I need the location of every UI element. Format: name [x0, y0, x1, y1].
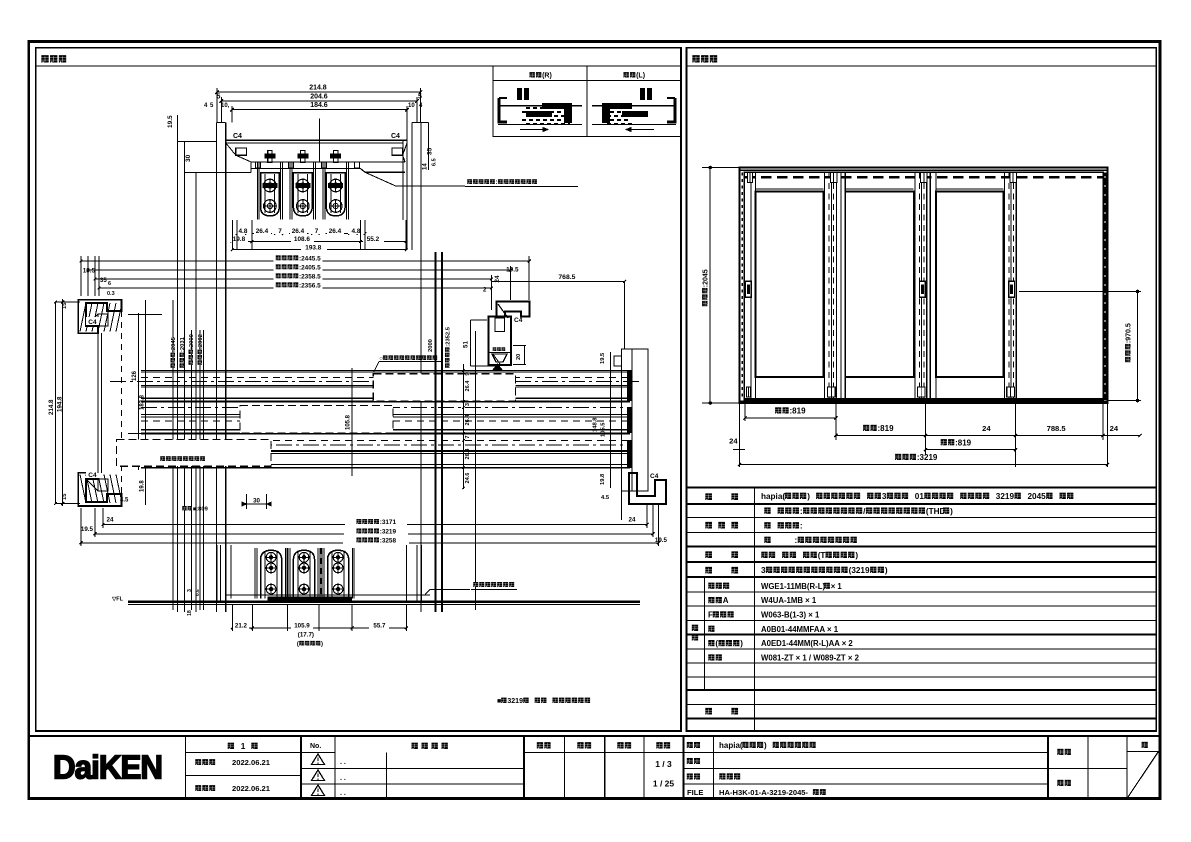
svg-text:194.8: 194.8 [57, 396, 64, 412]
head jamb chamfer feet [236, 148, 247, 155]
svg-text:А: А [723, 596, 729, 605]
svg-text:0.3: 0.3 [107, 291, 115, 297]
floor detail dashed center [320, 548, 322, 598]
hanger housing [326, 173, 345, 216]
roller bolt lower [264, 200, 277, 213]
svg-text:6: 6 [108, 281, 111, 287]
svg-text:24: 24 [1110, 424, 1119, 433]
svg-text:2022.06.21: 2022.06.21 [232, 784, 271, 793]
vertical grid lines left cluster [172, 300, 174, 610]
left frame weatherstrip dashes [741, 172, 743, 400]
hanger bolt [301, 151, 305, 163]
front-view panel title line [687, 65, 1157, 67]
svg-text:108.6: 108.6 [294, 236, 310, 243]
door stop dims 19.5/148.8/105.5 [610, 352, 612, 488]
mid dim 768.5 [491, 280, 624, 282]
label 正面図 [692, 55, 699, 62]
center thick verticals [434, 252, 436, 612]
head detail right wall [411, 123, 413, 251]
svg-text:26.4: 26.4 [465, 380, 471, 392]
floor detail left wall [216, 545, 218, 602]
svg-text:(17.7): (17.7) [298, 632, 314, 639]
floor line [128, 601, 640, 603]
svg-text:1: 1 [241, 742, 246, 751]
768.5 right extension vertical [624, 281, 626, 349]
head dim 30 left [184, 141, 186, 612]
svg-text:3: 3 [465, 403, 471, 406]
revision history header [412, 743, 418, 749]
head bottom dims row2 [232, 241, 406, 243]
head bottom dims row3 [232, 249, 406, 251]
svg-text::819: :819 [955, 438, 972, 447]
head track base [251, 161, 405, 163]
svg-text:No.: No. [310, 743, 321, 750]
svg-text:7: 7 [278, 228, 282, 235]
svg-text:24: 24 [729, 437, 738, 446]
right top jamb column [489, 317, 512, 366]
svg-text::2445.5: :2445.5 [299, 255, 321, 262]
roller bolt lower [329, 200, 342, 213]
head detail left wall [215, 123, 217, 613]
svg-text:W4UA-1MB × 1: W4UA-1MB × 1 [761, 596, 817, 605]
svg-text:26.4: 26.4 [256, 228, 269, 235]
head bottom dims row1 [237, 233, 365, 235]
svg-text:): ) [855, 551, 858, 560]
svg-text:3: 3 [761, 566, 766, 575]
svg-text::2352.5: :2352.5 [446, 326, 452, 346]
mid dim extension verticals right [528, 256, 530, 300]
svg-text:19.5: 19.5 [83, 268, 96, 275]
svg-text:3219: 3219 [996, 492, 1015, 501]
hanger bolt [334, 151, 338, 163]
svg-text:C4: C4 [88, 319, 97, 326]
door stop flange caps [627, 370, 633, 401]
svg-text::: : [800, 522, 803, 531]
pocket diagram door blocks [526, 111, 552, 117]
svg-text::: : [795, 536, 798, 545]
door handles [745, 281, 751, 297]
svg-text::2045: :2045 [703, 269, 710, 287]
svg-text:): ) [321, 642, 323, 648]
svg-text::3258: :3258 [380, 537, 397, 544]
svg-text:hapia(: hapia( [719, 741, 743, 750]
svg-text:19.5: 19.5 [167, 115, 174, 128]
svg-text:21.2: 21.2 [235, 622, 248, 629]
hanger side plates [289, 162, 291, 220]
dim 20 bracket [513, 345, 526, 347]
head detail dim 184.6 [232, 109, 407, 111]
edition cell [186, 751, 336, 753]
svg-text::2002: :2002 [198, 334, 204, 349]
elevation bottom dim row3 819 [926, 449, 1016, 451]
elevation inner frame [744, 172, 1103, 400]
svg-text:. .: . . [340, 759, 346, 766]
svg-text:A0B01-44MMFAA × 1: A0B01-44MMFAA × 1 [761, 625, 839, 634]
top hanger marks [748, 172, 753, 182]
roller bolt upper [264, 179, 277, 192]
svg-text:26.4: 26.4 [292, 228, 305, 235]
floor roller housing [293, 550, 314, 598]
svg-text:4.5: 4.5 [120, 498, 129, 504]
svg-text:9: 9 [465, 372, 471, 375]
svg-text:▽FL: ▽FL [111, 597, 124, 603]
svg-text:10: 10 [408, 103, 415, 109]
svg-text:■: ■ [497, 698, 501, 705]
svg-text:126: 126 [132, 370, 138, 381]
svg-text:14: 14 [423, 163, 429, 170]
right frame dark jamb [1104, 172, 1107, 400]
spec table sub labels [708, 583, 714, 589]
pocket diagram wall mark [647, 88, 652, 100]
svg-text:15: 15 [62, 493, 68, 500]
svg-text:(3219: (3219 [849, 566, 870, 575]
svg-text:. .: . . [340, 775, 346, 782]
elevation bottom dim row2 819 / 24 / 788.5 / 24 [836, 434, 1140, 436]
svg-text:A0ED1-44MM(R-L)AA × 2: A0ED1-44MM(R-L)AA × 2 [761, 639, 853, 648]
floor hanger side plates [256, 548, 258, 599]
svg-text:1 / 3: 1 / 3 [655, 759, 672, 769]
svg-text:(L): (L) [636, 73, 645, 80]
hanger housing [261, 173, 280, 216]
mid dims overall heights [81, 260, 529, 262]
pocket diagram jamb L [667, 98, 675, 122]
mohair seal [493, 347, 497, 351]
svg-text:20: 20 [516, 354, 522, 360]
floor guide blocks [747, 387, 751, 397]
svg-text::819: :819 [878, 424, 895, 433]
elevation outer frame [740, 168, 1108, 404]
svg-text:2022.06.21: 2022.06.21 [232, 758, 271, 767]
svg-text:19.8: 19.8 [233, 236, 246, 243]
divider 3 (door3/open bay) [1003, 172, 1005, 398]
svg-text:105.8: 105.8 [346, 414, 352, 430]
svg-text:24: 24 [982, 424, 991, 433]
svg-text:768.5: 768.5 [558, 274, 575, 281]
mid bottom dim 3258 [81, 542, 659, 544]
bottom-right hook profile [629, 473, 666, 504]
svg-text::970.5: :970.5 [1126, 323, 1133, 343]
hanger side plates [322, 162, 324, 220]
mid bottom dim 3171 [103, 523, 647, 525]
mid bottom dim 3219 [95, 533, 653, 535]
svg-text:■:809: ■:809 [193, 507, 209, 513]
door 2 panel inner rect [845, 192, 913, 378]
track down tabs [256, 162, 261, 168]
svg-text:788.5: 788.5 [1047, 424, 1067, 433]
svg-text:3: 3 [187, 589, 193, 592]
svg-text:19.5: 19.5 [506, 267, 519, 274]
svg-text:): ) [950, 507, 953, 516]
right row dims 26.4 stack [463, 364, 465, 489]
rotated labels center verticals [428, 339, 434, 352]
mohair triangle [493, 364, 503, 371]
svg-text:105.5: 105.5 [601, 422, 607, 437]
left jamb face lines [97, 333, 99, 473]
spec table vertical lines [754, 488, 756, 732]
svg-text:30: 30 [185, 154, 192, 162]
svg-text:0.5: 0.5 [195, 589, 201, 596]
floor hanger side plates [323, 548, 325, 599]
head dim 35 right [427, 147, 434, 155]
svg-text:(R): (R) [542, 73, 552, 80]
floor small labels left [187, 589, 193, 592]
hanger bolt [268, 151, 272, 163]
mid dim extension verticals left [80, 256, 82, 296]
floor roller housing [261, 550, 282, 598]
label C4 bottom-left [86, 470, 99, 478]
elevation bottom dim overall 3219 [740, 463, 1108, 465]
svg-text::2045: :2045 [171, 336, 177, 352]
svg-text:105.9: 105.9 [294, 622, 310, 629]
svg-text::2000: :2000 [189, 334, 195, 349]
svg-text::: : [800, 507, 803, 516]
svg-text:55.7: 55.7 [373, 622, 386, 629]
label C4 top-left [86, 317, 99, 325]
svg-text:35: 35 [427, 147, 434, 155]
svg-text:): ) [764, 741, 767, 750]
svg-text:204.6: 204.6 [310, 93, 328, 100]
svg-text::2358.5: :2358.5 [299, 273, 321, 280]
left extension ticks [128, 314, 162, 316]
pocket diagram jamb L [499, 98, 507, 122]
svg-text::3171: :3171 [380, 519, 397, 526]
svg-text:24: 24 [494, 275, 501, 283]
svg-text:): ) [885, 566, 888, 575]
spec table row labels [705, 493, 712, 500]
svg-text:19.8: 19.8 [600, 473, 606, 485]
pocket diagram wall line [498, 105, 582, 107]
head detail dim 204.6 [221, 100, 417, 102]
roller bolt upper [297, 179, 310, 192]
floor roller bolts [299, 552, 309, 562]
page cell [1127, 750, 1160, 752]
svg-text::: : [496, 179, 498, 186]
svg-text:26.4: 26.4 [465, 414, 471, 426]
pocket diagram wall mark [517, 88, 522, 100]
svg-text:19.8: 19.8 [140, 480, 146, 492]
svg-text:10,: 10, [221, 103, 230, 109]
floor rail bar [268, 597, 353, 602]
door 1 stile lines [750, 172, 752, 398]
mid bottom extension verticals [102, 508, 104, 528]
approval headers [537, 742, 543, 748]
elevation bottom dim row1 819 [745, 417, 836, 419]
section-view panel title line [36, 65, 681, 67]
svg-text:(: ( [715, 639, 718, 648]
floor roller housing [328, 550, 349, 598]
svg-text:FILE: FILE [687, 788, 703, 797]
svg-text:19.5: 19.5 [600, 352, 606, 364]
label 809 [182, 506, 186, 510]
divider 1 (door1/door2) [824, 172, 826, 398]
label 吊車レール [467, 179, 472, 184]
door section row B lines [141, 407, 630, 409]
svg-text::2356.5: :2356.5 [299, 282, 321, 289]
svg-text:(T: (T [818, 551, 826, 560]
svg-text:1 / 25: 1 / 25 [653, 779, 675, 789]
label 引手掘込キャップ [160, 456, 165, 461]
masking rect row C pull-cap box [117, 440, 272, 467]
svg-text:C4: C4 [233, 133, 242, 140]
pocket diagram hatch [526, 107, 570, 109]
svg-text::2031: :2031 [180, 336, 186, 352]
head detail dim extension lines [216, 88, 218, 123]
floor bottom dim line [232, 627, 406, 629]
head detail dim 214.8 [217, 91, 420, 93]
left dim line 214.8/194.8 [62, 299, 64, 506]
pocket diagram wall line [592, 105, 676, 107]
svg-text:24: 24 [629, 517, 636, 524]
svg-text:26.4: 26.4 [329, 228, 342, 235]
floor bottom dim extensions [231, 604, 233, 631]
svg-text:4.8: 4.8 [239, 228, 248, 235]
svg-text::2405.5: :2405.5 [299, 264, 321, 271]
svg-text:C4: C4 [391, 133, 400, 140]
svg-text:W081-ZT × 1 / W089-ZT × 2: W081-ZT × 1 / W089-ZT × 2 [761, 654, 860, 663]
svg-text::3219: :3219 [380, 528, 397, 535]
spec table horizontal lines [687, 487, 1157, 489]
floor detail right walls [405, 545, 407, 602]
svg-text:hapia(: hapia( [761, 492, 785, 501]
svg-text:55.2: 55.2 [367, 236, 380, 243]
svg-text:3219: 3219 [507, 698, 523, 705]
svg-text:C4: C4 [88, 472, 97, 479]
masking rect row B label box [240, 406, 393, 433]
svg-text:24: 24 [107, 517, 114, 524]
door section row C lines [141, 439, 630, 441]
svg-text:6.5: 6.5 [432, 158, 438, 166]
elevation track dashed line [745, 176, 1103, 178]
pocket diagram hatch [604, 107, 632, 109]
floor roller bolts [266, 552, 276, 562]
svg-text:214.8: 214.8 [309, 85, 327, 92]
svg-text:DaiKEN: DaiKEN [53, 749, 162, 786]
door 3 stile lines [929, 172, 931, 398]
dim 51 right-top [470, 320, 472, 366]
svg-text:C4: C4 [650, 473, 659, 480]
rotated labels on left verticals [171, 336, 177, 367]
name rows [684, 751, 1049, 753]
svg-text:30: 30 [253, 498, 260, 505]
svg-text::3219: :3219 [917, 453, 938, 462]
dim 30 bottom-center [246, 494, 248, 509]
svg-text:HA-H3K-01-A-3219-2045-: HA-H3K-01-A-3219-2045- [719, 788, 809, 797]
svg-text:2000: 2000 [428, 339, 434, 352]
elevation floor line [740, 400, 1108, 402]
left jamb bottom profile [78, 473, 121, 506]
svg-text:W063-B(1-3) × 1: W063-B(1-3) × 1 [761, 611, 820, 620]
dim 105.8 vertical [351, 368, 353, 476]
svg-text:(: ( [297, 642, 299, 648]
right top jamb profile head bar [497, 302, 530, 317]
svg-text:WGE1-11MB(R-L): WGE1-11MB(R-L) [761, 582, 826, 591]
label 断面図 [41, 55, 48, 62]
door 3 panel inner rect [936, 192, 1004, 378]
door section row A lines [141, 370, 630, 372]
svg-text:× 1: × 1 [831, 582, 843, 591]
track leader line [365, 172, 396, 186]
divider 2 (door2/door3) [914, 172, 916, 398]
svg-text:7: 7 [465, 435, 471, 438]
pocket diagram door blocks [622, 111, 648, 117]
svg-text:2045: 2045 [1028, 492, 1047, 501]
svg-text::819: :819 [790, 407, 807, 416]
svg-text:): ) [740, 639, 743, 648]
roller bolt upper [329, 179, 342, 192]
title block top line [29, 735, 1160, 737]
svg-text:C4: C4 [514, 317, 523, 324]
elevation dim handle height 970.5 [1137, 292, 1139, 401]
svg-text:F: F [708, 611, 713, 620]
svg-text:. .: . . [340, 790, 346, 797]
svg-text:26.4: 26.4 [465, 448, 471, 460]
head dim extension verticals [231, 220, 233, 250]
elevation dim height 2045 [709, 168, 711, 404]
section-view panel border [36, 48, 681, 731]
svg-text:3: 3 [882, 492, 887, 501]
svg-text:184.6: 184.6 [310, 102, 328, 109]
svg-text:24.6: 24.6 [465, 473, 471, 484]
door 1 panel inner rect [756, 192, 824, 378]
left jamb top profile [78, 300, 121, 333]
svg-text:7: 7 [315, 228, 319, 235]
svg-text:18: 18 [187, 610, 193, 616]
title block vertical dividers [185, 736, 187, 799]
svg-text:51: 51 [463, 341, 470, 348]
pocket diagram arrow [626, 129, 654, 131]
hanger side plates [256, 162, 258, 220]
pocket diagram arrow [520, 129, 548, 131]
svg-text:4.8: 4.8 [352, 228, 361, 235]
hanger housing [293, 173, 312, 216]
detail box 右引(R) [493, 66, 681, 137]
head detail centerline [319, 119, 321, 163]
svg-text:01: 01 [915, 492, 925, 501]
svg-text:4.5: 4.5 [601, 495, 610, 501]
head dim 19.5 top-left [167, 115, 174, 128]
svg-text:193.8: 193.8 [305, 244, 321, 251]
svg-text:): ) [807, 492, 810, 501]
door stop profile [622, 349, 649, 491]
floor hanger side plates [289, 548, 291, 599]
svg-text:(THD: (THD [926, 507, 946, 516]
roller bolt lower [297, 200, 310, 213]
head jamb top plate [226, 139, 407, 141]
flat rail leader + label [430, 589, 470, 591]
left inner dim lines [138, 313, 140, 470]
front-view panel border [687, 48, 1157, 731]
svg-text:35: 35 [100, 278, 107, 284]
svg-text:19.5: 19.5 [81, 526, 94, 533]
svg-text:15: 15 [62, 302, 68, 309]
svg-text:214.8: 214.8 [48, 399, 55, 415]
masking rect row A label box [373, 374, 515, 401]
floor roller bolts [333, 552, 343, 562]
door 2 stile lines [840, 172, 842, 398]
owner cells [1048, 767, 1127, 769]
svg-text:148.8: 148.8 [593, 417, 599, 432]
